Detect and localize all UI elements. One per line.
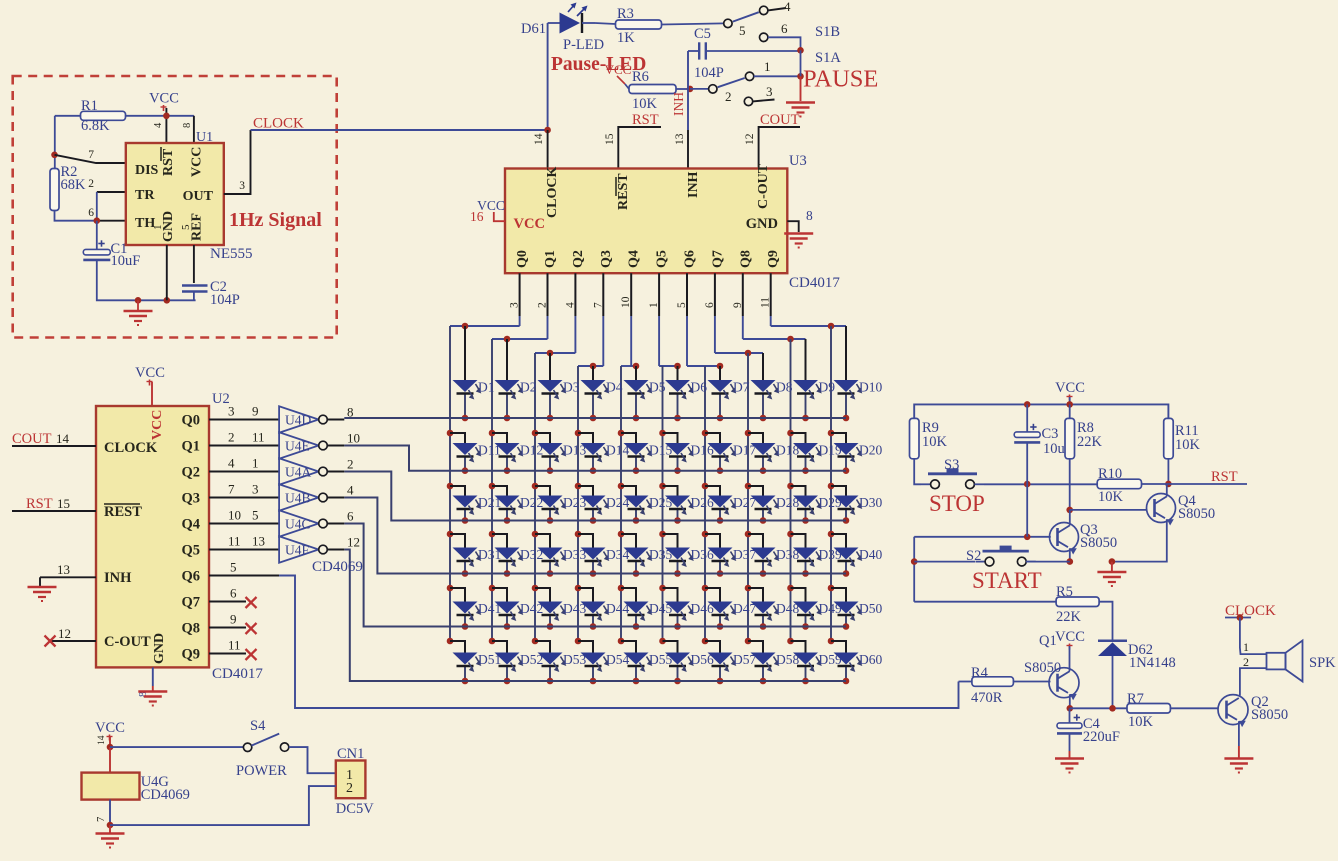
- junction C5/S1B: [797, 47, 804, 54]
- LED D31: [453, 548, 478, 560]
- svg-text:D8: D8: [776, 380, 793, 395]
- svg-text:1N4148: 1N4148: [1129, 655, 1176, 671]
- wire Q3 emitter to ground row: [1069, 548, 1071, 561]
- svg-text:CD4069: CD4069: [141, 787, 190, 803]
- svg-text:10: 10: [228, 508, 241, 523]
- inverter U4F: [279, 536, 319, 562]
- svg-text:2: 2: [1243, 655, 1249, 669]
- svg-text:1: 1: [764, 59, 771, 74]
- wire CLOCK to SPK pin1: [1240, 618, 1267, 655]
- svg-text:8: 8: [182, 123, 193, 128]
- wire pin12 COUT stub: [759, 127, 800, 169]
- svg-text:12: 12: [744, 133, 756, 145]
- svg-text:Q5: Q5: [181, 543, 200, 559]
- svg-text:5: 5: [739, 23, 746, 38]
- dashed box 1Hz oscillator: [13, 76, 337, 338]
- svg-text:12: 12: [58, 626, 71, 641]
- svg-text:6: 6: [781, 21, 788, 36]
- resistor R1: [55, 115, 81, 117]
- wire GND pin 1: [166, 245, 168, 300]
- svg-text:U4F: U4F: [285, 543, 309, 558]
- svg-text:COUT: COUT: [12, 431, 52, 447]
- LED D40: [834, 548, 859, 560]
- LED D25: [624, 496, 649, 508]
- transistor Q2 S8050: [1218, 695, 1248, 725]
- svg-text:15: 15: [604, 133, 616, 145]
- no-connect X Q7: [246, 597, 257, 608]
- svg-text:S8050: S8050: [1024, 660, 1061, 676]
- svg-text:VCC: VCC: [1055, 380, 1085, 396]
- svg-text:8: 8: [806, 208, 813, 223]
- wire OUT pin 3 to CLOCK: [224, 130, 251, 194]
- wire R5 to D62: [1099, 602, 1112, 640]
- svg-text:14: 14: [97, 735, 107, 745]
- wire VCC to S4: [110, 746, 243, 748]
- LED D26: [665, 496, 690, 508]
- LED D28: [751, 496, 776, 508]
- LED D17: [708, 443, 733, 455]
- svg-text:6: 6: [347, 509, 354, 524]
- pushbutton S3: [921, 483, 931, 485]
- svg-text:5: 5: [252, 508, 259, 523]
- matrix row cathode buses: [344, 417, 846, 419]
- svg-text:Q1: Q1: [181, 439, 200, 455]
- ground (U4G): [96, 832, 125, 835]
- svg-text:U4E: U4E: [285, 439, 310, 454]
- svg-text:D2: D2: [520, 380, 537, 395]
- svg-text:VCC: VCC: [150, 410, 165, 440]
- ic U2 CD4017: [96, 406, 209, 667]
- svg-text:5: 5: [180, 224, 192, 230]
- svg-text:1: 1: [1243, 640, 1249, 654]
- wire Q3 base node: [914, 536, 1051, 538]
- svg-text:3: 3: [252, 482, 259, 497]
- wire C1 bottom to ground rail: [97, 260, 196, 300]
- wires U3 outputs to matrix columns: [519, 273, 521, 316]
- wire INH vertical: [687, 51, 689, 130]
- svg-text:INH: INH: [104, 570, 132, 586]
- LED D4: [581, 380, 606, 392]
- svg-text:U4D: U4D: [285, 413, 311, 428]
- svg-text:14: 14: [533, 133, 545, 145]
- LED D10: [834, 380, 859, 392]
- svg-text:4: 4: [153, 122, 164, 128]
- svg-text:VCC: VCC: [135, 365, 165, 381]
- LED D5: [624, 380, 649, 392]
- wire R2 bottom to TH node: [55, 211, 97, 221]
- LED D1: [453, 380, 478, 392]
- LED D46: [665, 602, 690, 614]
- wire inverter out to row 3 bus: [344, 472, 846, 521]
- LED D59: [793, 653, 818, 665]
- op box U1 NE555: [126, 143, 224, 245]
- svg-text:11: 11: [228, 638, 241, 653]
- wire inverter out to row 6 bus: [344, 550, 846, 682]
- svg-text:CN1: CN1: [337, 746, 364, 762]
- wire COUT pin14: [12, 445, 96, 447]
- svg-text:Q9: Q9: [181, 647, 200, 663]
- resistor R8 22K: [1069, 404, 1071, 418]
- svg-text:RST: RST: [632, 112, 659, 128]
- ground (555): [137, 300, 139, 310]
- svg-text:Q2: Q2: [181, 465, 200, 481]
- LED D48: [751, 602, 776, 614]
- wire VCC top bus: [1069, 397, 1071, 404]
- wire S3 to R10/RST row: [984, 483, 1097, 485]
- svg-text:11: 11: [252, 430, 265, 445]
- svg-text:1: 1: [152, 225, 164, 231]
- ground (U2): [138, 690, 167, 693]
- switch S1A pins 2-1: [690, 88, 709, 90]
- transistor Q1 S8050: [1049, 668, 1079, 698]
- LED D7: [708, 380, 733, 392]
- svg-text:R4: R4: [971, 665, 989, 681]
- svg-text:8: 8: [347, 405, 354, 420]
- resistor R5 22K: [914, 601, 1056, 603]
- wire VCC to Q1 collector: [1069, 646, 1071, 671]
- svg-text:Q9: Q9: [766, 250, 781, 268]
- inverter U4D: [279, 406, 319, 432]
- svg-text:CLOCK: CLOCK: [104, 440, 158, 456]
- svg-text:RST: RST: [161, 148, 176, 176]
- wire Q4 emitter down: [1112, 519, 1167, 561]
- svg-text:REST: REST: [104, 504, 142, 520]
- svg-text:C3: C3: [1042, 426, 1059, 442]
- LED D9: [793, 380, 818, 392]
- wire VCC to pin4/8: [165, 108, 167, 143]
- LED D13: [538, 443, 563, 455]
- wire Q1 emitter: [1069, 694, 1071, 708]
- junction TH node: [94, 217, 101, 224]
- LED D42: [495, 602, 520, 614]
- svg-text:CD4017: CD4017: [212, 666, 263, 682]
- transistor Q4 S8050: [1147, 494, 1176, 523]
- svg-text:22K: 22K: [1056, 609, 1082, 625]
- LED D16: [665, 443, 690, 455]
- svg-text:2: 2: [346, 781, 353, 796]
- wire CLOCK bus to U3 pin14: [251, 129, 548, 131]
- wire CN1 pin2 to ground rail: [110, 786, 336, 825]
- svg-text:RST: RST: [1211, 469, 1238, 485]
- LED D41: [453, 602, 478, 614]
- svg-text:6.8K: 6.8K: [81, 118, 110, 134]
- svg-text:Q4: Q4: [181, 517, 200, 533]
- svg-text:4: 4: [347, 483, 354, 498]
- wire Q3 collector: [1069, 510, 1071, 526]
- matrix row 4 wires: [447, 531, 454, 538]
- junction GND pin tap: [164, 297, 171, 304]
- svg-text:VCC: VCC: [514, 216, 545, 232]
- LED D56: [665, 653, 690, 665]
- junction R6/INH: [687, 86, 694, 93]
- svg-text:C-OUT: C-OUT: [756, 163, 771, 209]
- wire VCC node: [109, 737, 111, 747]
- svg-text:7: 7: [96, 817, 107, 822]
- svg-text:2: 2: [347, 457, 354, 472]
- wire INH pin13 to ground: [40, 576, 96, 578]
- wire pin15 RST stub: [618, 127, 661, 169]
- resistor R9 10K: [910, 418, 920, 458]
- LED D37: [708, 548, 733, 560]
- svg-text:3: 3: [228, 404, 235, 419]
- capacitor C2 104P: [182, 284, 208, 286]
- speaker SPK: [1267, 653, 1286, 670]
- LED D12: [495, 443, 520, 455]
- svg-text:Q3: Q3: [599, 250, 614, 268]
- wire C-OUT pin12 no-connect: [49, 640, 96, 642]
- svg-text:DC5V: DC5V: [336, 801, 374, 817]
- LED D57: [708, 653, 733, 665]
- U2 GND wire: [152, 667, 154, 686]
- svg-text:13: 13: [252, 534, 265, 549]
- wire inverter out to row 4 bus: [344, 498, 846, 574]
- LED D49: [793, 602, 818, 614]
- U2 output stubs: [209, 419, 279, 421]
- svg-text:GND: GND: [746, 216, 778, 232]
- LED D3: [538, 380, 563, 392]
- svg-text:D6: D6: [691, 380, 708, 395]
- wire REF pin 5 to C2: [193, 245, 195, 283]
- svg-text:Q0: Q0: [515, 250, 530, 268]
- no-connect X Q9: [246, 649, 257, 660]
- svg-text:S8050: S8050: [1080, 535, 1117, 551]
- svg-text:7: 7: [88, 149, 94, 161]
- svg-text:VCC: VCC: [1055, 629, 1085, 645]
- matrix row 3 wires: [447, 483, 454, 490]
- svg-text:RST: RST: [26, 496, 53, 512]
- LED D51: [453, 653, 478, 665]
- svg-text:TR: TR: [135, 188, 155, 203]
- capacitor C4 220uF: [1069, 708, 1071, 723]
- capacitor C5 104P: [698, 42, 700, 59]
- junction CLOCK/pin14/D61: [544, 127, 551, 134]
- LED D50: [834, 602, 859, 614]
- svg-text:1Hz Signal: 1Hz Signal: [229, 209, 322, 231]
- wire R8 down to Q3 collector node: [1069, 459, 1071, 510]
- resistor R7 10K: [1127, 704, 1170, 714]
- svg-text:Q4: Q4: [627, 250, 642, 268]
- svg-text:U3: U3: [789, 153, 807, 169]
- svg-text:D4: D4: [606, 380, 623, 395]
- LED D32: [495, 548, 520, 560]
- svg-text:D30: D30: [859, 495, 882, 510]
- svg-text:Q8: Q8: [181, 621, 200, 637]
- inverter U4E: [279, 432, 319, 458]
- svg-text:PAUSE: PAUSE: [803, 66, 878, 93]
- svg-text:C5: C5: [694, 26, 711, 42]
- ic U4G CD4069: [82, 773, 140, 800]
- wire RST pin15: [12, 510, 96, 512]
- LED D15: [624, 443, 649, 455]
- svg-text:10K: 10K: [632, 96, 658, 112]
- svg-text:5: 5: [230, 560, 237, 575]
- ground (U2 INH): [28, 586, 57, 589]
- wire TR pin 2: [97, 191, 126, 193]
- svg-text:Q8: Q8: [738, 250, 753, 268]
- ic U3 CD4017: [505, 169, 787, 274]
- wire Q1 emitter row / R7: [1070, 707, 1127, 709]
- svg-text:2: 2: [228, 430, 235, 445]
- ground (C4): [1055, 757, 1084, 760]
- svg-text:3: 3: [239, 180, 245, 192]
- LED D34: [581, 548, 606, 560]
- resistor R4 470R: [959, 681, 972, 683]
- inverter U4A: [279, 458, 319, 484]
- svg-text:Q7: Q7: [181, 595, 200, 611]
- svg-text:Q2: Q2: [571, 250, 586, 268]
- svg-text:10: 10: [347, 431, 360, 446]
- LED D2: [495, 380, 520, 392]
- svg-text:104P: 104P: [210, 292, 240, 308]
- LED D45: [624, 602, 649, 614]
- resistor R10 10K: [1097, 479, 1141, 489]
- svg-text:D20: D20: [859, 443, 882, 458]
- svg-text:13: 13: [57, 562, 70, 577]
- LED D20: [834, 443, 859, 455]
- LED D52: [495, 653, 520, 665]
- svg-text:GND: GND: [152, 633, 167, 664]
- wire inverter out to row 2 bus: [344, 446, 846, 471]
- svg-text:S2: S2: [966, 548, 981, 564]
- svg-text:R7: R7: [1127, 691, 1144, 707]
- LED D27: [708, 496, 733, 508]
- svg-text:START: START: [972, 568, 1042, 593]
- wire R9 to S3: [914, 459, 921, 485]
- LED D38: [751, 548, 776, 560]
- svg-text:R1: R1: [81, 98, 98, 114]
- LED D8: [751, 380, 776, 392]
- resistor R2: [50, 169, 59, 211]
- svg-text:D10: D10: [859, 380, 882, 395]
- connector CN1 DC5V: [336, 761, 366, 799]
- LED D60: [834, 653, 859, 665]
- LED D35: [624, 548, 649, 560]
- LED D39: [793, 548, 818, 560]
- switch S4 POWER: [243, 743, 251, 751]
- svg-text:R3: R3: [617, 6, 634, 22]
- svg-text:1K: 1K: [617, 30, 635, 46]
- svg-text:104P: 104P: [694, 65, 724, 81]
- svg-text:10K: 10K: [1098, 489, 1124, 505]
- LED D18: [751, 443, 776, 455]
- svg-text:VCC: VCC: [149, 91, 179, 107]
- wire Q2 emitter to ground: [1238, 721, 1240, 746]
- net label RST (right): [1168, 483, 1247, 485]
- svg-text:Q7: Q7: [710, 250, 725, 268]
- LED D19: [793, 443, 818, 455]
- LED D58: [751, 653, 776, 665]
- LED D47: [708, 602, 733, 614]
- matrix row 2 wires: [447, 430, 454, 437]
- svg-text:Q0: Q0: [181, 413, 200, 429]
- junction ground tap: [135, 297, 142, 304]
- svg-text:S3: S3: [944, 457, 959, 473]
- svg-text:D40: D40: [859, 547, 882, 562]
- capacitor C1 10uF: [96, 221, 98, 250]
- svg-text:10K: 10K: [1128, 714, 1154, 730]
- ground (U3 pin8): [784, 232, 813, 235]
- svg-text:P-LED: P-LED: [563, 37, 604, 53]
- svg-text:220uF: 220uF: [1083, 729, 1120, 745]
- svg-text:10K: 10K: [922, 434, 948, 450]
- svg-text:D50: D50: [859, 601, 882, 616]
- svg-text:OUT: OUT: [183, 189, 214, 204]
- svg-text:CD4017: CD4017: [789, 275, 840, 291]
- junction R1/R2/DIS: [51, 152, 58, 159]
- LED D22: [495, 496, 520, 508]
- svg-text:16: 16: [470, 209, 484, 224]
- svg-text:U4C: U4C: [285, 517, 311, 532]
- inverter U4C: [279, 510, 319, 536]
- svg-text:U4A: U4A: [285, 465, 311, 480]
- wire SPK pin2 to Q2 collector: [1240, 668, 1267, 695]
- svg-text:NE555: NE555: [210, 246, 253, 262]
- svg-text:15: 15: [57, 496, 70, 511]
- wire VCC to U2: [151, 382, 153, 406]
- wire VCC to U4G: [109, 747, 111, 773]
- switch S1B terminal 6: [760, 33, 768, 41]
- LED D30: [834, 496, 859, 508]
- svg-text:12: 12: [347, 535, 360, 550]
- matrix row 6 wires: [447, 638, 454, 645]
- svg-text:11: 11: [228, 534, 241, 549]
- capacitor C3 10uF: [1026, 404, 1028, 432]
- wire Q3 base/Q4 base row: [1070, 509, 1148, 511]
- svg-text:6: 6: [230, 586, 237, 601]
- LED D44: [581, 602, 606, 614]
- svg-text:S8050: S8050: [1178, 506, 1215, 522]
- switch S1 unused pin 3: [744, 97, 752, 105]
- wire Q6 to bottom bus: [279, 576, 958, 709]
- svg-text:CD4069: CD4069: [312, 559, 363, 575]
- matrix row 5 wires: [447, 585, 454, 592]
- LED D61 P-LED: [548, 22, 560, 24]
- diode D62 1N4148: [1098, 639, 1127, 642]
- svg-text:7: 7: [228, 482, 235, 497]
- ground (flipflop): [1111, 562, 1113, 571]
- svg-text:D7: D7: [733, 380, 750, 395]
- svg-text:4: 4: [228, 456, 235, 471]
- svg-text:470R: 470R: [971, 690, 1003, 706]
- svg-text:10uF: 10uF: [111, 253, 141, 269]
- wire S4 to CN1 pin1: [280, 743, 288, 751]
- LED D14: [581, 443, 606, 455]
- svg-text:VCC: VCC: [190, 147, 205, 177]
- svg-text:S1A: S1A: [815, 50, 841, 66]
- matrix row 1 wires: [464, 326, 466, 380]
- svg-text:VCC: VCC: [95, 720, 125, 736]
- wire TH pin 6: [97, 220, 126, 222]
- svg-text:S8050: S8050: [1251, 707, 1288, 723]
- LED D21: [453, 496, 478, 508]
- svg-text:COUT: COUT: [760, 112, 800, 128]
- svg-text:U4B: U4B: [285, 491, 311, 506]
- svg-text:INH: INH: [686, 171, 701, 198]
- svg-text:VCC: VCC: [605, 62, 632, 77]
- wire pin14 stub: [547, 130, 549, 169]
- svg-text:10K: 10K: [1175, 437, 1201, 453]
- svg-text:REST: REST: [616, 173, 631, 210]
- no-connect X (pin12): [45, 636, 56, 647]
- svg-text:2: 2: [88, 178, 94, 190]
- no-connect X Q8: [246, 623, 257, 634]
- svg-text:1: 1: [252, 456, 259, 471]
- svg-text:CLOCK: CLOCK: [545, 167, 560, 218]
- svg-text:D60: D60: [859, 652, 882, 667]
- transistor Q3 S8050: [1050, 523, 1079, 552]
- svg-text:Q5: Q5: [655, 250, 670, 268]
- wire inverter out to row 5 bus: [344, 524, 846, 627]
